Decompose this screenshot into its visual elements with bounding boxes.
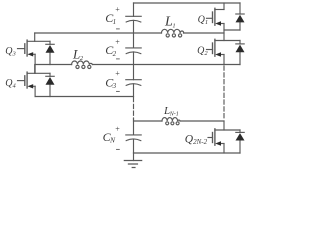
capacitor C2 <box>126 47 141 49</box>
transistor Q4 <box>18 65 51 97</box>
transistor Q3 <box>18 33 51 73</box>
wire capacitor bus <box>133 3 135 153</box>
wire rail C <box>35 96 133 98</box>
body diode of Q1 <box>236 3 245 30</box>
body diode of Q3 <box>46 41 55 64</box>
wire rail B <box>35 64 240 66</box>
wire dashed right bus <box>223 66 225 120</box>
inductor L2 <box>72 61 93 65</box>
wire rail E <box>134 152 241 154</box>
svg-text:+: + <box>115 5 120 14</box>
svg-text:+: + <box>115 69 120 78</box>
transistor Q1 <box>207 3 241 41</box>
wire dashed bus segment <box>133 98 135 120</box>
transistor Q2N-2 <box>208 121 240 153</box>
wire top rail <box>134 2 241 4</box>
body diode of Q2 <box>236 41 245 65</box>
capacitor C1 <box>126 15 141 17</box>
body diode of Q2N-2 <box>236 130 245 153</box>
inductor LN-1 <box>162 118 180 121</box>
capacitor C3 <box>126 79 141 81</box>
svg-text:+: + <box>115 38 120 47</box>
ground <box>133 153 135 161</box>
body diode of Q4 <box>46 73 55 96</box>
wire rail D <box>134 120 225 122</box>
wire rail A <box>35 32 224 34</box>
inductor L1 <box>162 29 184 33</box>
transistor Q2 <box>207 39 241 64</box>
capacitor CN <box>126 134 141 136</box>
svg-text:+: + <box>115 125 120 134</box>
